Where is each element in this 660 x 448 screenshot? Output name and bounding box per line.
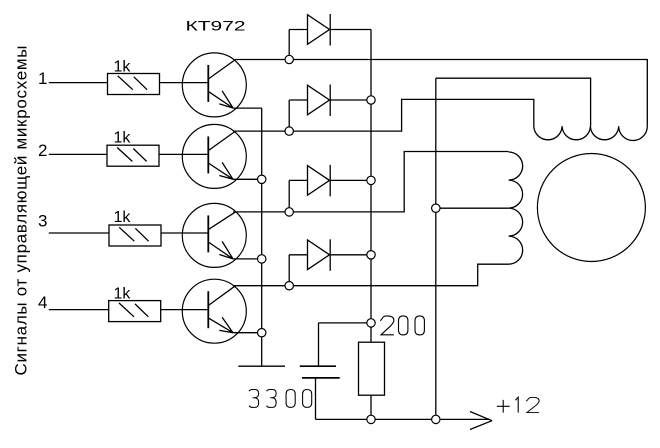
svg-text:1k: 1k <box>114 209 132 226</box>
svg-text:4: 4 <box>38 293 47 312</box>
svg-text:2: 2 <box>38 141 47 160</box>
svg-text:Сигналы от управляющей микросх: Сигналы от управляющей микросхемы <box>11 45 30 376</box>
svg-text:1: 1 <box>38 69 47 88</box>
svg-text:1k: 1k <box>114 286 132 303</box>
svg-text:КТ972: КТ972 <box>186 18 246 34</box>
svg-text:1k: 1k <box>114 59 132 76</box>
svg-text:1k: 1k <box>114 130 132 147</box>
svg-text:3: 3 <box>38 212 47 231</box>
